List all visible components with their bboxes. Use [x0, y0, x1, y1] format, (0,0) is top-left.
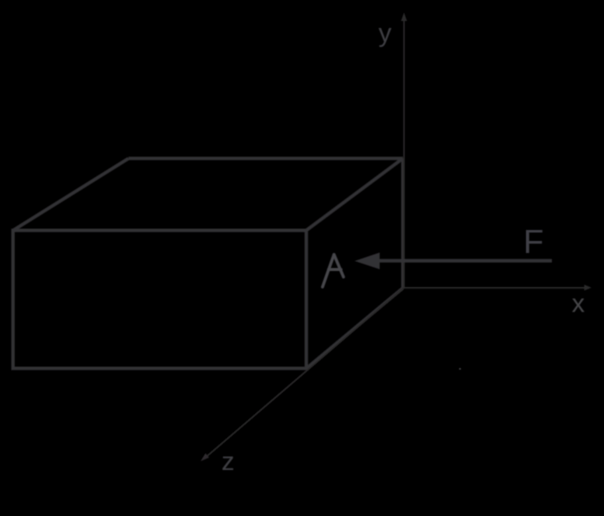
svg-text:F: F	[523, 224, 543, 261]
svg-text:y: y	[379, 18, 392, 48]
y axis	[403, 21, 405, 289]
force F arrowhead	[355, 253, 380, 270]
z axis	[207, 288, 403, 456]
y axis arrowhead	[401, 13, 407, 22]
box top-right depth edge	[306, 158, 403, 230]
label A (italic letter on box face)	[323, 255, 344, 288]
stray dot	[459, 368, 461, 370]
box back right vertical edge	[401, 158, 404, 288]
z axis arrowhead	[201, 453, 210, 461]
box top-left depth edge	[13, 158, 129, 230]
force F arrow line	[378, 259, 552, 263]
box bottom-right depth edge	[306, 288, 403, 368]
x axis	[403, 287, 585, 289]
box back top edge	[129, 157, 403, 160]
box front face	[13, 230, 306, 368]
svg-text:z: z	[222, 446, 235, 476]
svg-text:x: x	[572, 288, 585, 318]
x axis arrowhead	[584, 285, 591, 291]
